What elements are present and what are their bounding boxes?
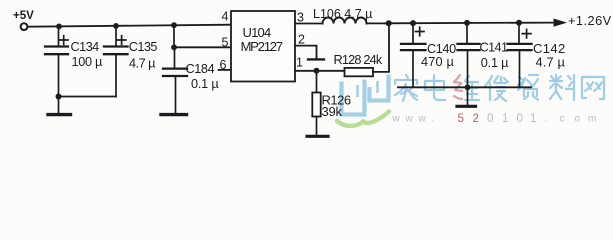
resistor R126 <box>316 71 318 93</box>
svg-text:C134: C134 <box>71 40 100 54</box>
input terminal <box>21 23 28 30</box>
ground left <box>58 97 60 113</box>
node right ground junction <box>465 84 471 90</box>
svg-text:MP2127: MP2127 <box>241 39 283 54</box>
wire pin 3 to L106 <box>295 23 323 25</box>
svg-text:100 µ: 100 µ <box>72 55 103 69</box>
svg-text:4.7 µ: 4.7 µ <box>536 56 566 70</box>
wire pin5 column <box>173 25 175 47</box>
wire pin 1 <box>295 70 345 72</box>
svg-text:4.7 µ: 4.7 µ <box>129 57 156 71</box>
svg-text:6: 6 <box>220 58 227 72</box>
capacitor C134 <box>45 27 68 97</box>
svg-text:2: 2 <box>298 33 305 47</box>
capacitor C135 <box>104 26 128 97</box>
svg-text:1: 1 <box>530 112 536 125</box>
svg-text:o: o <box>575 114 581 125</box>
node C141 tap <box>464 20 470 26</box>
ground C184 <box>161 113 187 116</box>
svg-text:m: m <box>588 114 596 125</box>
svg-text:3: 3 <box>297 11 304 25</box>
svg-text:470 µ: 470 µ <box>421 55 454 69</box>
wire pin 2 <box>295 46 317 58</box>
ground right <box>467 87 469 105</box>
capacitor pin2 plate <box>308 58 324 60</box>
svg-text:C184: C184 <box>186 62 215 76</box>
node C135 tap <box>113 23 119 29</box>
capacitor C140 <box>401 23 426 87</box>
watermark chinese characters <box>395 75 604 101</box>
svg-text:C135: C135 <box>129 40 158 54</box>
svg-text:+1.26V: +1.26V <box>568 13 612 28</box>
svg-text:1: 1 <box>296 56 303 70</box>
wire bottom bus right <box>398 86 531 88</box>
node ground junction <box>56 94 62 100</box>
svg-text:.: . <box>545 114 548 125</box>
node C134 tap <box>56 24 62 30</box>
svg-text:+5V: +5V <box>13 10 34 22</box>
svg-text:0.1 µ: 0.1 µ <box>191 77 219 91</box>
node C142 tap <box>516 20 522 26</box>
capacitor C184 <box>163 47 187 113</box>
wire output rail <box>385 22 554 25</box>
svg-text:5: 5 <box>222 35 229 49</box>
svg-text:C140: C140 <box>427 42 456 56</box>
output arrow <box>554 19 568 27</box>
node pin5 junction <box>171 44 177 50</box>
watermark url text <box>392 112 597 125</box>
svg-text:L106 4.7 µ: L106 4.7 µ <box>313 7 372 21</box>
node pin1/R126 junction <box>314 68 320 74</box>
capacitor C141 <box>458 23 480 87</box>
svg-text:C141: C141 <box>480 40 508 54</box>
svg-text:5: 5 <box>458 112 464 125</box>
wire +5V rail <box>29 25 231 27</box>
wire R128 to rail <box>373 23 389 72</box>
wire bottom bus C134-C135 <box>59 96 117 98</box>
watermark book logo <box>342 75 389 115</box>
svg-text:c: c <box>560 114 565 125</box>
wire pin 6 stub <box>219 69 232 71</box>
node C140 tap <box>410 20 416 26</box>
svg-text:0: 0 <box>487 112 493 125</box>
svg-text:U104: U104 <box>243 25 271 40</box>
resistor R128 <box>345 68 374 76</box>
svg-text:39k: 39k <box>322 104 343 119</box>
node L106/R128 junction <box>386 20 392 26</box>
svg-text:w: w <box>392 114 401 125</box>
svg-text:0: 0 <box>517 112 523 125</box>
svg-text:C142: C142 <box>533 41 566 56</box>
svg-text:.: . <box>432 114 435 125</box>
ground R126 <box>316 117 318 136</box>
svg-text:w: w <box>405 114 414 125</box>
svg-text:w: w <box>418 114 427 125</box>
op-amp U104 (regulator IC) <box>231 11 295 82</box>
svg-text:4: 4 <box>222 9 229 23</box>
inductor L106 <box>323 18 367 24</box>
svg-text:R128 24k: R128 24k <box>334 53 383 67</box>
wire L106 to rail <box>367 22 386 24</box>
wire to pin 5 <box>174 46 231 48</box>
svg-text:1: 1 <box>502 112 508 125</box>
svg-text:2: 2 <box>473 112 479 125</box>
watermark green swoosh <box>337 112 389 126</box>
capacitor C142 <box>508 23 532 88</box>
svg-text:0.1 µ: 0.1 µ <box>481 56 509 70</box>
node pin5 column tap <box>171 22 177 28</box>
